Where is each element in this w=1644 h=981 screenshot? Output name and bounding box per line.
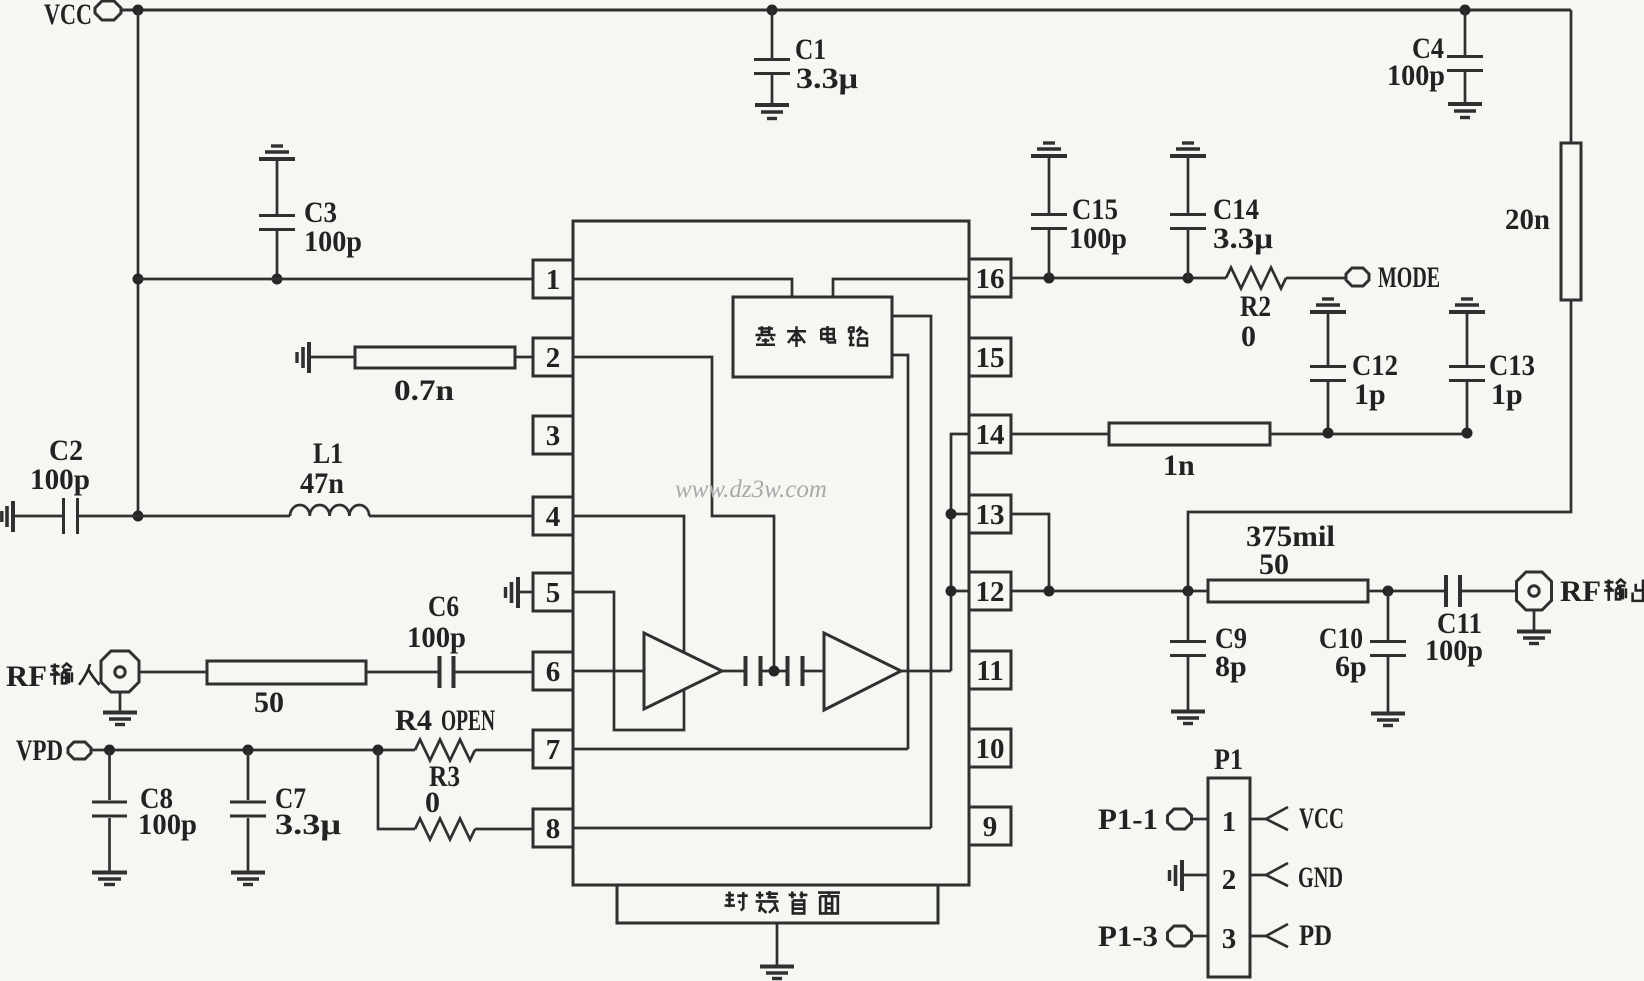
capacitor C14 — [1170, 158, 1206, 278]
node top rail / left branch — [133, 5, 144, 16]
node VPD/R3 branch — [373, 745, 384, 756]
capacitor C3 — [259, 161, 295, 279]
svg-text:1n: 1n — [1163, 449, 1195, 482]
ground below C8 — [92, 873, 127, 885]
node C10 — [1383, 586, 1394, 597]
svg-text:3: 3 — [1222, 923, 1237, 955]
svg-text:2: 2 — [546, 342, 561, 374]
ground above C3 — [259, 146, 295, 159]
microstrip 375mil 50 — [1208, 580, 1368, 602]
text 基本电路 — [756, 326, 868, 347]
MODE terminal — [1346, 268, 1369, 286]
wire pin2 internal to cap midpoint — [573, 357, 774, 666]
svg-text:6: 6 — [546, 656, 561, 688]
wire pin8 internal — [573, 827, 931, 830]
wire block upper stub to pin8 net — [892, 316, 931, 828]
resistor R4 — [415, 740, 475, 761]
svg-text:12: 12 — [976, 576, 1005, 608]
svg-text:3: 3 — [546, 420, 561, 452]
wire left vertical bus x=138 — [137, 10, 140, 516]
wire gnd to pin5 — [519, 591, 533, 594]
svg-text:PD: PD — [1299, 919, 1332, 952]
node C15 — [1044, 273, 1055, 284]
microstrip 0.7n — [355, 347, 515, 368]
microstrip 50 input — [207, 661, 366, 684]
svg-text:RF: RF — [1560, 575, 1601, 608]
wire P1-1 to box — [1192, 818, 1208, 821]
pin 4 box — [533, 497, 573, 535]
node pin13 jog — [1044, 586, 1055, 597]
wire VPD row — [91, 749, 415, 752]
ground above C15 — [1031, 143, 1067, 156]
svg-text:1p: 1p — [1354, 378, 1386, 411]
wire pin14 to 1n — [1011, 433, 1109, 436]
pin 7 box — [533, 730, 573, 768]
resistor R2 — [1226, 268, 1286, 289]
pin 13 box — [969, 495, 1011, 533]
wire between caps — [762, 670, 787, 673]
wire pin12 row — [1011, 590, 1208, 593]
node C1 on rail — [767, 5, 778, 16]
pin 9 box — [969, 807, 1011, 845]
microstrip 1n — [1109, 423, 1270, 445]
svg-text:50: 50 — [1259, 548, 1289, 581]
wire 0.7n to pin2 — [515, 356, 533, 359]
node 375mil input — [1183, 586, 1194, 597]
node row1/left bus — [133, 274, 144, 285]
svg-text:1: 1 — [1222, 806, 1237, 838]
capacitor C11 — [1446, 575, 1460, 607]
pin 16 box — [969, 259, 1011, 297]
svg-text:100p: 100p — [1069, 222, 1127, 255]
svg-text:www.dz3w.com: www.dz3w.com — [675, 476, 827, 503]
svg-text:R2: R2 — [1240, 290, 1271, 323]
ground above C12 — [1310, 299, 1346, 312]
svg-text:100p: 100p — [1387, 59, 1445, 92]
svg-text:14: 14 — [976, 419, 1005, 451]
ground row2 left — [297, 342, 309, 373]
ground below C9 — [1171, 712, 1205, 724]
amplifier A2 — [824, 633, 901, 710]
wire internal bus x=951 pins 14-13-12 — [951, 434, 969, 671]
VCC terminal — [95, 1, 121, 20]
pin 10 box — [969, 729, 1011, 767]
wire 1n to C12 C13 — [1270, 433, 1467, 436]
coupling capacitor Ca — [746, 656, 761, 686]
block 封装背面 — [617, 885, 938, 923]
inductor 20n (microstrip) — [1188, 10, 1581, 591]
svg-text:100p: 100p — [407, 621, 466, 654]
ground below C4 — [1448, 104, 1482, 118]
pin 6 box — [533, 652, 573, 690]
connector P1 body — [1208, 778, 1250, 977]
wire row1 to pin1 — [138, 278, 533, 281]
inductor L1 — [290, 505, 369, 516]
capacitor C10 — [1370, 591, 1406, 712]
svg-text:11: 11 — [976, 655, 1003, 687]
ground below C1 — [755, 105, 789, 119]
svg-text:100p: 100p — [138, 808, 197, 841]
wire A1 out — [722, 670, 745, 673]
svg-text:VPD: VPD — [16, 734, 63, 767]
wire block lower stub to pin7 net — [892, 355, 908, 749]
wire pin16 internal — [833, 279, 969, 297]
node row1/C3 — [272, 274, 283, 285]
node 1n/C13 — [1462, 428, 1473, 439]
svg-text:1: 1 — [546, 264, 561, 296]
ground below C10 — [1371, 714, 1405, 726]
svg-text:9: 9 — [983, 811, 998, 843]
terminal P1-3 — [1168, 926, 1192, 946]
svg-text:OPEN: OPEN — [441, 704, 495, 737]
ground pin5 left — [506, 577, 519, 608]
wire P1 PD chevron — [1250, 924, 1288, 947]
ground above C13 — [1449, 299, 1485, 312]
wire P1-3 to box — [1192, 935, 1208, 938]
wire C6 to pin6 — [455, 671, 533, 674]
node left bus / row4 — [133, 511, 144, 522]
text 封装背面 — [725, 891, 840, 913]
svg-text:2: 2 — [1222, 864, 1237, 896]
pin 1 box — [533, 260, 573, 298]
wire A2 out — [901, 670, 951, 673]
amplifier A1 — [644, 633, 722, 709]
wire 375mil to C11 — [1368, 590, 1444, 593]
ground above C14 — [1170, 143, 1206, 156]
ground RF input — [103, 713, 137, 725]
svg-text:C6: C6 — [428, 590, 459, 623]
wire pin6 internal — [573, 670, 644, 673]
svg-text:16: 16 — [976, 263, 1005, 295]
node bus/pin12 — [946, 586, 957, 597]
pin 12 box — [969, 572, 1011, 610]
terminal P1-1 — [1168, 809, 1192, 829]
wire gnd to P1 pin2 — [1183, 874, 1208, 877]
svg-text:100p: 100p — [30, 463, 90, 496]
svg-text:5: 5 — [546, 577, 561, 609]
svg-text:8: 8 — [546, 813, 561, 845]
svg-text:R4: R4 — [395, 704, 432, 737]
capacitor C15 — [1031, 158, 1067, 278]
svg-text:100p: 100p — [1425, 634, 1483, 667]
coupling capacitor Cb — [788, 656, 803, 686]
svg-text:100p: 100p — [304, 225, 362, 258]
ground below package — [760, 967, 794, 979]
wire pin1 internal — [573, 279, 792, 297]
wire row4 to L1 — [138, 515, 290, 518]
capacitor C6 — [440, 656, 454, 688]
svg-text:RF: RF — [6, 660, 47, 693]
ground C2 left — [2, 501, 13, 532]
wire to A2 — [804, 670, 824, 673]
svg-text:6p: 6p — [1335, 650, 1367, 683]
connector RF input — [101, 651, 139, 692]
wire pin13 right jog — [1011, 514, 1049, 591]
wire RFout gnd stub — [1533, 610, 1536, 630]
ground P1 pin2 — [1170, 860, 1183, 891]
svg-text:7: 7 — [546, 734, 561, 766]
wire R2 to MODE — [1286, 277, 1347, 280]
svg-text:VCC: VCC — [44, 0, 92, 31]
node C14 — [1183, 273, 1194, 284]
svg-text:0: 0 — [1241, 320, 1256, 353]
capacitor C1 — [754, 10, 790, 104]
svg-text:3.3μ: 3.3μ — [796, 62, 858, 95]
pin 2 box — [533, 338, 573, 376]
svg-text:L1: L1 — [313, 437, 343, 470]
svg-text:3.3μ: 3.3μ — [275, 808, 341, 841]
svg-text:8p: 8p — [1215, 650, 1247, 683]
svg-text:0.7n: 0.7n — [394, 374, 454, 407]
capacitor C2 — [14, 498, 138, 534]
svg-text:20n: 20n — [1505, 203, 1550, 236]
pin 14 box — [969, 415, 1011, 453]
wire P1 GND chevron — [1250, 863, 1288, 886]
node coupling midpoint — [769, 666, 780, 677]
svg-text:47n: 47n — [300, 467, 344, 500]
pin 8 box — [533, 809, 573, 847]
pin 5 box — [533, 573, 573, 611]
svg-text:P1: P1 — [1214, 743, 1243, 776]
svg-text:15: 15 — [976, 342, 1005, 374]
node VPD/C8 — [104, 745, 115, 756]
IC U1 body — [573, 221, 969, 885]
wire pin5 internal — [573, 592, 684, 730]
capacitor C12 — [1310, 314, 1346, 433]
pin 11 box — [969, 651, 1011, 689]
node 1n/C12 — [1323, 428, 1334, 439]
svg-text:GND: GND — [1298, 861, 1343, 894]
node bus/pin13 — [946, 509, 957, 520]
capacitor C8 — [92, 750, 127, 871]
svg-text:13: 13 — [976, 499, 1005, 531]
wire gnd to 0.7n — [310, 356, 355, 359]
wire pin16 to MODE — [1011, 277, 1226, 280]
wire R3 branch down — [378, 750, 415, 829]
pin 15 box — [969, 338, 1011, 376]
svg-text:3.3μ: 3.3μ — [1213, 222, 1273, 255]
wire C11 to RF out — [1461, 590, 1515, 593]
resistor R3 — [415, 819, 475, 840]
node C4 on rail — [1460, 5, 1471, 16]
wire stub pin12 — [951, 590, 969, 593]
wire RFin gnd stub — [119, 692, 122, 711]
svg-text:VCC: VCC — [1299, 802, 1344, 835]
VPD terminal — [68, 742, 91, 759]
wire R3 to pin8 — [475, 828, 533, 831]
wire RFin to strip — [138, 671, 207, 674]
connector RF output — [1517, 572, 1552, 610]
node VPD/C7 — [243, 745, 254, 756]
capacitor C4 — [1447, 10, 1483, 103]
wire strip to C6 — [366, 671, 438, 674]
capacitor C13 — [1449, 314, 1485, 433]
wire pin4 internal — [573, 516, 684, 652]
svg-text:P1-1: P1-1 — [1098, 803, 1158, 836]
wire L1 to pin4 — [369, 515, 533, 518]
capacitor C9 — [1170, 591, 1206, 710]
wire VCC top rail — [121, 9, 1571, 12]
svg-text:4: 4 — [546, 501, 561, 533]
svg-text:0: 0 — [425, 786, 440, 819]
block 基本电路 — [733, 297, 892, 377]
wire stub pin13 — [951, 513, 969, 516]
wire P1 VCC chevron — [1250, 807, 1288, 830]
svg-text:1p: 1p — [1491, 378, 1523, 411]
wire R4 to pin7 — [475, 749, 533, 752]
svg-text:MODE: MODE — [1378, 261, 1440, 294]
svg-text:P1-3: P1-3 — [1098, 920, 1158, 953]
svg-text:50: 50 — [254, 686, 284, 719]
wire package back to ground — [776, 923, 779, 965]
ground RF output — [1517, 632, 1551, 644]
svg-text:10: 10 — [976, 733, 1005, 765]
ground below C7 — [231, 873, 265, 885]
pin 3 box — [533, 416, 573, 454]
capacitor C7 — [230, 750, 266, 871]
wire pin7 internal — [573, 748, 908, 751]
